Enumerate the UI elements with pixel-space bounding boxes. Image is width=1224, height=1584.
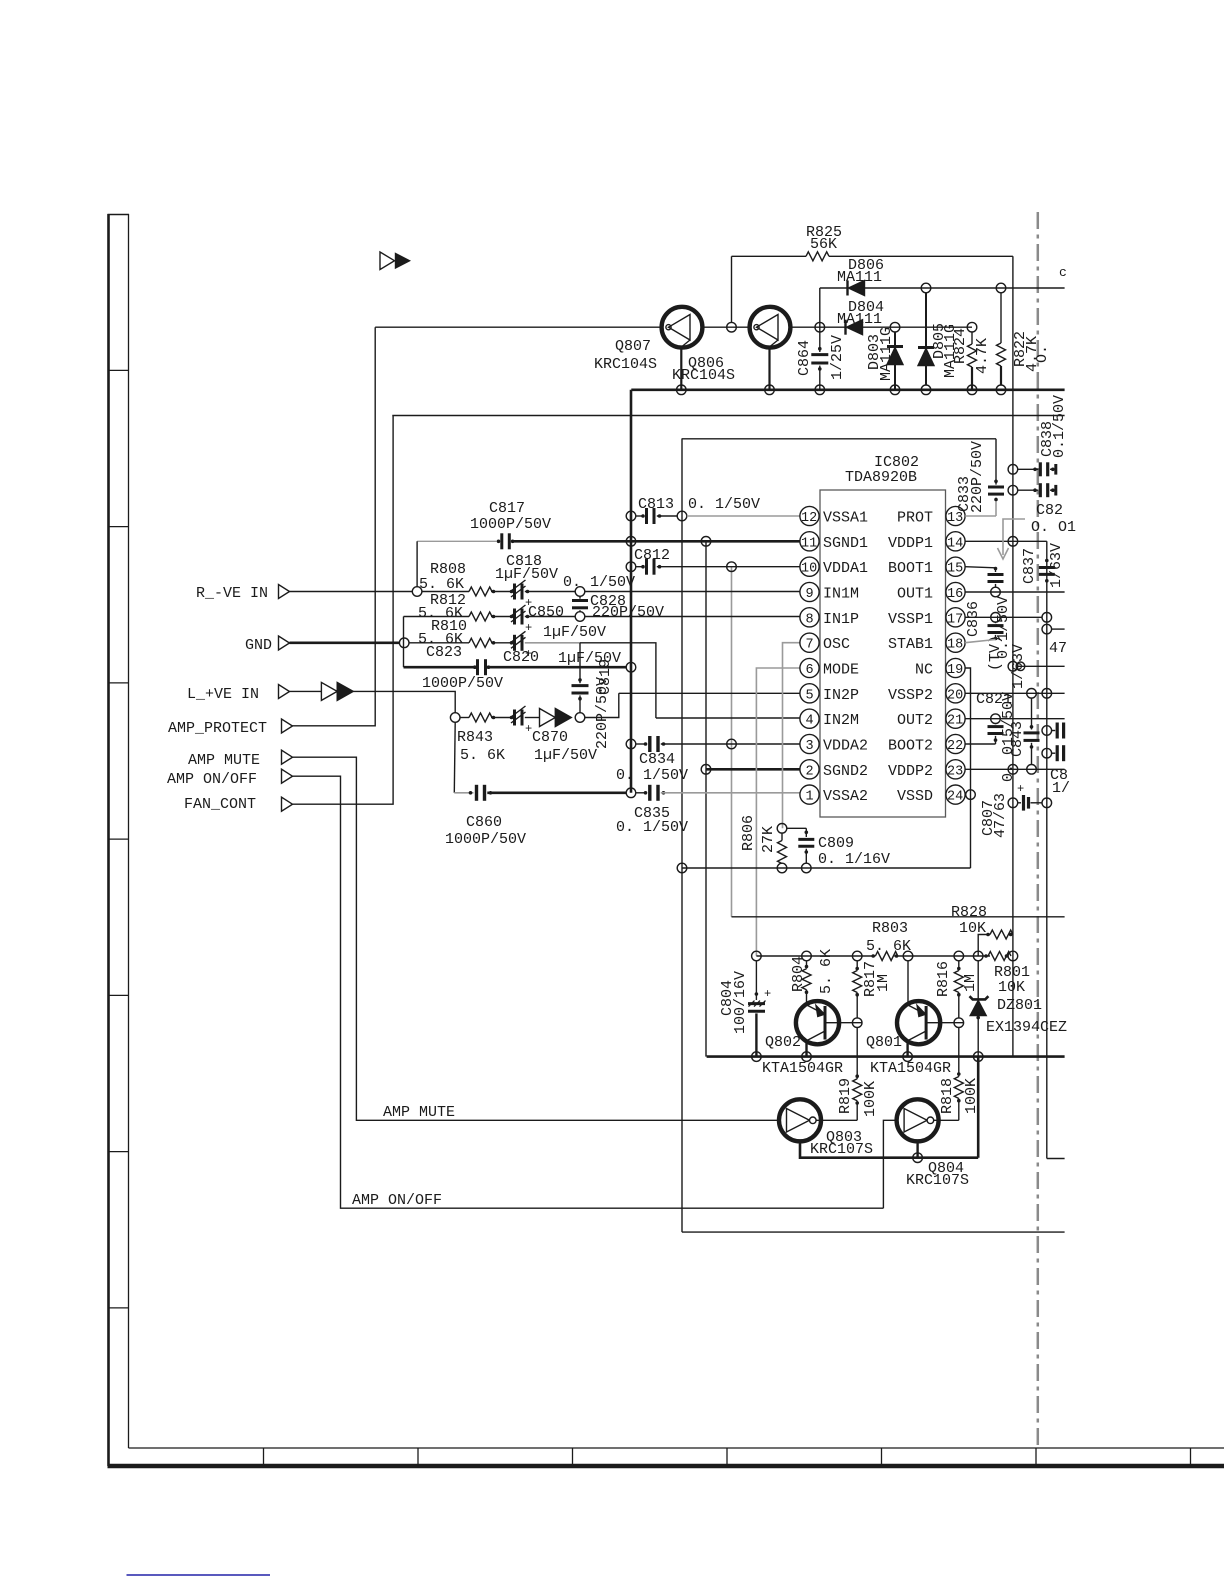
wire D806 anode drop to base node <box>819 288 821 327</box>
capacitor C819 220P/50V <box>572 643 615 749</box>
node rail junction C804 <box>752 1052 762 1062</box>
svg-text:1000P/50V: 1000P/50V <box>422 675 503 692</box>
svg-text:0.1/50V: 0.1/50V <box>1051 395 1068 458</box>
svg-text:TDA8920B: TDA8920B <box>845 469 917 486</box>
resistor R816 1M <box>935 961 979 1018</box>
resistor R828 10K <box>951 904 1013 956</box>
capacitor C870 1uF/50V polarized <box>510 706 597 764</box>
node VDDP2 main junction <box>1008 765 1018 775</box>
wire L_+VE IN to R843 column <box>353 691 455 712</box>
wire VDDA rail corner y=917 <box>732 916 1065 918</box>
pin 6 MODE <box>800 658 859 678</box>
wire L_+VE node down to C860 <box>453 722 456 793</box>
svg-text:VDDA1: VDDA1 <box>823 560 868 577</box>
svg-text:21: 21 <box>947 714 963 729</box>
node rail junction Q801 <box>903 1052 913 1062</box>
node OUT2 junction <box>991 714 1001 724</box>
transistor Q807 KRC104S <box>594 307 702 373</box>
svg-text:OSC: OSC <box>823 636 850 653</box>
transistor Q806 KRC104S <box>672 307 790 384</box>
svg-text:VDDP1: VDDP1 <box>888 535 933 552</box>
node supply stub junction y629 <box>1042 624 1052 634</box>
wire R_-VE IN to R808 node <box>290 591 413 593</box>
wire MODE elbow <box>756 668 800 956</box>
svg-text:+: + <box>1017 782 1024 796</box>
svg-text:IN2M: IN2M <box>823 712 859 729</box>
diode D804 MA111 <box>837 299 884 335</box>
pin 15 BOOT1 <box>888 557 965 577</box>
pin 23 VDDP2 <box>888 760 965 780</box>
svg-text:1M: 1M <box>962 974 979 992</box>
wire Q807 emitter to rail <box>680 347 682 389</box>
svg-text:0. 1/50V: 0. 1/50V <box>688 496 760 513</box>
wire STAB1 stub gray <box>965 640 995 643</box>
wire Q801 emitter feed <box>907 961 909 1005</box>
svg-text:11: 11 <box>801 536 817 551</box>
transistor Q801 KTA1504GR <box>866 1001 951 1077</box>
svg-text:C834: C834 <box>639 751 675 768</box>
svg-text:56K: 56K <box>810 236 837 253</box>
node junction C864 top <box>815 322 825 332</box>
svg-text:O. O1: O. O1 <box>1031 519 1076 536</box>
node Q807 emitter junction <box>677 385 687 395</box>
pin 14 VDDP1 <box>888 532 965 552</box>
wire AMP ON/OFF down to Q804 <box>293 776 884 1208</box>
connector triangle AMP_PROTECT <box>282 719 293 733</box>
wire bottom return y=1232 <box>682 1231 1065 1233</box>
node VDDP1 main vertical junction <box>1008 537 1018 547</box>
wire SGND1 row thick <box>513 540 800 543</box>
svg-text:C820: C820 <box>503 649 539 666</box>
wire stub y666 to cut edge <box>1018 665 1065 667</box>
svg-text:1000P/50V: 1000P/50V <box>445 831 526 848</box>
transistor Q804 KRC107S <box>897 1099 969 1189</box>
node R808 input <box>412 587 422 597</box>
pin 5 IN2P <box>800 684 859 704</box>
connector triangle AMP MUTE <box>282 750 293 764</box>
wire BOOT2 stub <box>965 743 995 745</box>
svg-text:BOOT1: BOOT1 <box>888 560 933 577</box>
wire FAN_CONT up to top rail <box>293 416 394 805</box>
page border left inner <box>128 214 130 1448</box>
svg-text:1/63V: 1/63V <box>1048 543 1065 588</box>
svg-text:C813: C813 <box>638 496 674 513</box>
svg-text:KTA1504GR: KTA1504GR <box>870 1060 951 1077</box>
svg-text:2: 2 <box>806 764 814 779</box>
resistor R824 4.7K <box>952 322 991 394</box>
pin 24 VSSD <box>897 785 965 805</box>
svg-text:C870: C870 <box>532 729 568 746</box>
wire VSSA1 row gray <box>687 515 800 517</box>
resistor R806 27K <box>740 815 787 873</box>
wire Q803 output to R819 <box>816 1119 857 1121</box>
capacitor C821 <box>988 724 1004 745</box>
svg-text:AMP ON/OFF: AMP ON/OFF <box>352 1192 442 1209</box>
resistor R825 56K <box>732 224 1013 261</box>
capacitor C864 1/25V <box>796 327 846 390</box>
node Q802 base junction <box>852 1018 862 1028</box>
connector triangle AMP ON/OFF <box>282 769 293 783</box>
svg-text:220P/50V: 220P/50V <box>594 677 611 749</box>
wire base rail y=327 <box>375 326 661 328</box>
wire SGND2 row thick <box>706 768 800 771</box>
capacitor C823 1000P/50V <box>404 644 636 692</box>
svg-text:R843: R843 <box>457 729 493 746</box>
svg-text:DZ801: DZ801 <box>997 997 1042 1014</box>
node VDDP2 C843 bottom <box>1027 765 1037 775</box>
svg-text:24: 24 <box>947 790 963 805</box>
svg-text:AMP ON/OFF: AMP ON/OFF <box>167 771 257 788</box>
svg-text:C809: C809 <box>818 835 854 852</box>
pin 2 SGND2 <box>800 760 868 780</box>
svg-text:R828: R828 <box>951 904 987 921</box>
svg-text:AMP MUTE: AMP MUTE <box>383 1104 455 1121</box>
ground rail thick y=1056.5 <box>707 1055 1065 1058</box>
pin 12 VSSA1 <box>800 506 868 526</box>
svg-text:VSSP1: VSSP1 <box>888 611 933 628</box>
diode D805 MA111G <box>918 283 959 394</box>
svg-text:220P/50V: 220P/50V <box>969 441 986 513</box>
resistor R843 5.6K <box>457 713 510 764</box>
wire IN1P row to pin8 <box>585 616 800 618</box>
svg-text:3: 3 <box>806 739 814 754</box>
pin 3 VDDA2 <box>800 734 868 754</box>
capacitor C836 0.1/50V (TV) <box>965 596 1012 671</box>
node C828 top <box>575 587 585 597</box>
node SGND bus junction row11 <box>626 537 636 547</box>
svg-text:MODE: MODE <box>823 662 859 679</box>
svg-text:12: 12 <box>801 511 817 526</box>
svg-text:C850: C850 <box>528 604 564 621</box>
svg-text:5: 5 <box>806 688 814 703</box>
svg-text:C837: C837 <box>1021 548 1038 584</box>
fold line (page cut marker) <box>1037 212 1040 1448</box>
wire Q802 collector to rail <box>805 1041 807 1057</box>
wire VDDP1 row <box>965 540 1047 542</box>
wire gray pointer arrow to BOOT1 <box>998 519 1026 559</box>
svg-text:VSSA2: VSSA2 <box>823 788 868 805</box>
wire Q806 emitter to rail <box>768 347 770 389</box>
svg-text:AMP MUTE: AMP MUTE <box>188 752 260 769</box>
svg-text:VSSD: VSSD <box>897 788 933 805</box>
svg-text:1/25V: 1/25V <box>829 335 846 380</box>
wire Q801 base to junction <box>940 1022 963 1024</box>
pin 17 VSSP1 <box>888 608 965 628</box>
svg-text:22: 22 <box>947 739 963 754</box>
svg-text:KRC104S: KRC104S <box>594 356 657 373</box>
buffer symbol open triangle row R843 <box>540 709 556 727</box>
svg-text:VSSA1: VSSA1 <box>823 510 868 527</box>
node VSSA2 bus end <box>626 788 636 798</box>
connector triangle FAN_CONT <box>282 797 293 811</box>
pin 4 IN2M <box>800 709 859 729</box>
svg-text:1M: 1M <box>875 974 892 992</box>
wire R825 base drop <box>731 256 733 322</box>
svg-text:7: 7 <box>806 638 814 653</box>
svg-text:KTA1504GR: KTA1504GR <box>762 1060 843 1077</box>
capacitor C820 1uF/50V polarized <box>503 631 621 667</box>
svg-text:14: 14 <box>947 536 963 551</box>
transistor Q802 KTA1504GR <box>762 1001 843 1077</box>
node VSSP1 junction <box>991 613 1001 623</box>
svg-text:IN1P: IN1P <box>823 611 859 628</box>
wire IN2M row to pin4 <box>656 717 800 719</box>
pin 22 BOOT2 <box>888 734 965 754</box>
svg-text:Q807: Q807 <box>615 338 651 355</box>
node VSSD junction <box>966 790 976 800</box>
node GND junction <box>399 638 409 648</box>
pin 11 SGND1 <box>800 532 868 552</box>
wire vertical VDDA branch x=731.5 <box>731 567 733 917</box>
node rail junction Q802 <box>802 1052 812 1062</box>
capacitor C834 0.1/50V <box>616 736 800 784</box>
svg-text:220P/50V: 220P/50V <box>592 604 664 621</box>
zener diode DZ801 EX1394CEZ <box>970 961 1068 1057</box>
svg-text:KRC107S: KRC107S <box>906 1172 969 1189</box>
wire base row y=956 <box>756 955 875 957</box>
svg-text:C843: C843 <box>1009 721 1026 757</box>
diode D806 MA111 <box>820 257 1065 296</box>
page border bottom inner <box>129 1447 1224 1449</box>
svg-text:10K: 10K <box>998 979 1025 996</box>
wire supply corner bottom right <box>1047 1158 1065 1160</box>
node OUT1 junction <box>991 587 1001 597</box>
node VSSP2 supply junction <box>1042 689 1052 699</box>
capacitor C830 bootstrap <box>988 567 1004 588</box>
svg-text:STAB1: STAB1 <box>888 636 933 653</box>
wire R812 feed vertical <box>403 617 405 668</box>
wire GND thick to junction <box>290 641 400 644</box>
svg-text:OUT2: OUT2 <box>897 712 933 729</box>
node rail left end <box>677 863 687 873</box>
svg-text:C864: C864 <box>796 340 813 376</box>
svg-text:C860: C860 <box>466 814 502 831</box>
resistor R808 5.6K <box>419 561 510 596</box>
resistor R812 5.6K <box>404 592 511 622</box>
svg-text:GND: GND <box>245 637 272 654</box>
wire IN2P row to pin5 <box>619 692 800 694</box>
node junctions on base row <box>752 951 762 961</box>
svg-text:27K: 27K <box>760 826 777 853</box>
svg-text:100/16V: 100/16V <box>732 971 749 1034</box>
wire stub y629 to cut edge <box>1052 628 1065 630</box>
node rail junction DZ801 <box>973 1052 983 1062</box>
wire vertical C833 net <box>681 439 683 1232</box>
wire VDDP2 row <box>965 768 1065 770</box>
wire DZ801 column down <box>977 1057 980 1158</box>
resistor R803 5.6K <box>866 920 911 961</box>
wire BOOT1 stub <box>965 567 995 568</box>
svg-text:1µF/50V: 1µF/50V <box>495 566 558 583</box>
pin 10 VDDA1 <box>800 557 868 577</box>
svg-text:+: + <box>764 987 771 1001</box>
svg-text:20: 20 <box>947 688 963 703</box>
svg-text:1µF/50V: 1µF/50V <box>534 747 597 764</box>
resistor R818 100K <box>939 1028 980 1121</box>
svg-text:0. 1/16V: 0. 1/16V <box>818 851 890 868</box>
svg-text:23: 23 <box>947 764 963 779</box>
svg-text:R816: R816 <box>935 961 952 997</box>
buffer symbol open triangle <box>321 682 337 700</box>
svg-text:+: + <box>525 621 532 635</box>
svg-text:PROT: PROT <box>897 510 933 527</box>
wire SGND bus vertical thick <box>630 390 633 793</box>
svg-text:15: 15 <box>947 562 963 577</box>
svg-text:IN1M: IN1M <box>823 586 859 603</box>
svg-text:47: 47 <box>1049 640 1067 657</box>
wire OUT1 row <box>965 591 1065 593</box>
pin 8 IN1P <box>800 608 859 628</box>
capacitor C843 <box>1009 698 1040 764</box>
svg-text:8: 8 <box>806 612 814 627</box>
left ticks <box>109 370 129 1308</box>
pin 19 NC <box>915 658 965 678</box>
svg-text:+: + <box>525 647 532 661</box>
svg-text:SGND2: SGND2 <box>823 763 868 780</box>
buffer symbol filled triangle <box>337 682 353 700</box>
svg-text:KRC104S: KRC104S <box>672 367 735 384</box>
svg-text:Q801: Q801 <box>866 1034 902 1051</box>
node main vertical y666 junction <box>1008 662 1018 672</box>
resistor R822 4.7K <box>996 283 1041 394</box>
flow symbol open triangle <box>380 252 395 270</box>
resistor R801 10K <box>984 951 1030 996</box>
page border left outer <box>107 214 110 1466</box>
connector triangle GND <box>279 636 290 650</box>
wire between Q807 Q806 <box>703 326 750 328</box>
bottom ticks <box>264 1448 1191 1466</box>
svg-text:100K: 100K <box>862 1081 879 1117</box>
connector triangle L_+VE IN <box>279 685 290 699</box>
svg-text:1000P/50V: 1000P/50V <box>470 516 551 533</box>
svg-text:C812: C812 <box>634 547 670 564</box>
wire C820 output gray to IN2M elbow <box>525 642 580 644</box>
connector triangle R_-VE IN <box>279 585 290 599</box>
svg-text:1: 1 <box>806 790 814 805</box>
svg-text:1µF/50V: 1µF/50V <box>543 624 606 641</box>
svg-text:R_-VE IN: R_-VE IN <box>196 585 268 602</box>
pin 7 OSC <box>800 633 850 653</box>
op-amp IC802 TDA8920B body <box>820 490 946 817</box>
node C828 bottom <box>575 612 585 622</box>
svg-text:0. 1/50V: 0. 1/50V <box>616 767 688 784</box>
page border bottom outer <box>108 1464 1224 1469</box>
wire Q801 collector to rail <box>906 1041 908 1057</box>
svg-text:13: 13 <box>947 511 963 526</box>
svg-text:VDDP2: VDDP2 <box>888 763 933 780</box>
svg-text:R806: R806 <box>740 815 757 851</box>
svg-text:NC: NC <box>915 662 933 679</box>
wire Q806 to D804 <box>791 326 973 328</box>
capacitor C812 <box>626 547 800 575</box>
svg-text:C823: C823 <box>426 644 462 661</box>
wire vertical SGND1 branch x=706 <box>705 541 707 1056</box>
svg-text:17: 17 <box>947 612 963 627</box>
node branch junction row11 <box>701 537 711 547</box>
svg-text:5. 6K: 5. 6K <box>818 949 835 994</box>
svg-text:10: 10 <box>801 562 817 577</box>
svg-text:SGND1: SGND1 <box>823 535 868 552</box>
wire right supply vertical <box>1046 541 1048 1158</box>
wire Q804 input elbow <box>883 1120 896 1208</box>
svg-text:19: 19 <box>947 663 963 678</box>
wire FAN rail y=415.5 <box>392 415 1064 417</box>
wire row y=956 right part <box>894 955 990 957</box>
node Q801 base junction <box>954 1018 964 1028</box>
wire NC stub and drop <box>965 668 970 868</box>
svg-text:4: 4 <box>806 714 814 729</box>
wire Q804 output to R818 <box>934 1119 959 1121</box>
svg-text:1/: 1/ <box>1052 780 1070 797</box>
wire main right vertical from R825 <box>1012 256 1014 1056</box>
wire ground rail y=868 <box>682 867 971 869</box>
buffer symbol filled triangle row R843 <box>555 709 571 727</box>
capacitor C817 1000P/50V <box>417 500 551 549</box>
pin 18 STAB1 <box>888 633 965 653</box>
svg-text:c: c <box>1059 265 1067 280</box>
wire AMP_PROTECT up to Q807 base rail <box>293 327 376 726</box>
capacitor C828 220P/50V <box>563 574 664 621</box>
svg-text:AMP_PROTECT: AMP_PROTECT <box>168 720 267 737</box>
resistor R810 5.6K <box>409 618 510 648</box>
svg-text:R824: R824 <box>952 328 969 364</box>
capacitor C804 100/16V electrolytic <box>719 961 771 1057</box>
svg-text:VDDA2: VDDA2 <box>823 738 868 755</box>
node Q806 emitter junction <box>765 385 775 395</box>
capacitor C833 220P/50V <box>956 439 1004 516</box>
svg-text:EX1394CEZ: EX1394CEZ <box>986 1019 1067 1036</box>
svg-text:16: 16 <box>947 587 963 602</box>
svg-text:R803: R803 <box>872 920 908 937</box>
pin 1 VSSA2 <box>800 785 868 805</box>
node Q804 collector junction <box>913 1153 923 1163</box>
node VSSP1 right end circle <box>1042 613 1052 623</box>
svg-text:O.: O. <box>1034 345 1051 363</box>
capacitor C835 0.1/50V <box>616 785 800 836</box>
node IN2P feed <box>575 713 585 723</box>
pin 21 OUT2 <box>897 709 965 729</box>
node junction Q807-Q806 <box>727 322 737 332</box>
svg-text:FAN_CONT: FAN_CONT <box>184 796 256 813</box>
svg-text:MA111G: MA111G <box>878 327 895 381</box>
node second y666 junction <box>1016 662 1025 671</box>
svg-text:5. 6K: 5. 6K <box>419 576 464 593</box>
svg-text:4.7K: 4.7K <box>974 338 991 374</box>
svg-text:C817: C817 <box>489 500 525 517</box>
resistor R817 1M <box>853 961 892 1018</box>
wire VSSP2 row <box>965 692 1065 694</box>
wire OSC elbow <box>783 643 801 829</box>
flow symbol filled triangle <box>396 254 410 269</box>
node junction C864 bottom <box>815 385 825 395</box>
svg-text:C836: C836 <box>965 601 982 637</box>
capacitor C809 0.1/16V <box>787 828 890 873</box>
svg-text:0. 1/50V: 0. 1/50V <box>563 574 635 591</box>
pin 20 VSSP2 <box>888 684 965 704</box>
svg-text:L_+VE IN: L_+VE IN <box>187 686 259 703</box>
wire Q803 collector down <box>800 1141 978 1157</box>
svg-text:9: 9 <box>806 587 814 602</box>
wire C833 top rail y=438.8 <box>682 438 996 440</box>
resistor R819 100K <box>837 1028 879 1121</box>
capacitor C837 0.1/63V <box>1021 543 1065 588</box>
svg-text:47/63: 47/63 <box>992 793 1009 838</box>
wire AMP MUTE down to Q803 <box>293 757 780 1120</box>
wire Q804 collector to thick rail <box>916 1141 918 1157</box>
svg-text:+: + <box>525 722 532 736</box>
capacitor C838 0.1/50V twin <box>1008 395 1068 497</box>
svg-text:OUT1: OUT1 <box>897 586 933 603</box>
